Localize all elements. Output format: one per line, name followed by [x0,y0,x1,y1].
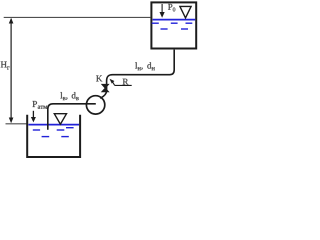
upper water level mark (nabla) [180,6,191,18]
label Patm [32,101,47,109]
label R [123,79,129,85]
pressure Patm arrow [31,111,36,123]
upper tank water dashes [152,23,193,29]
label ln, dn [135,62,155,70]
lower reference line [6,123,28,125]
label Hg [1,62,10,70]
discharge pipe [100,50,174,99]
pump P (circle) [86,96,104,114]
suction pipe [48,104,96,130]
valve K (gate valve symbol) [102,84,109,91]
label P0 [168,4,175,12]
lower water level mark (nabla) [54,114,66,125]
leader arrow R [110,79,132,86]
label K [96,76,102,82]
lower tank T1 outline (open top) [27,115,80,157]
upper tank T2 outline [151,2,196,48]
lower tank water surface [28,124,79,126]
pressure P0 arrow [160,4,165,18]
lower tank water dashes [33,128,74,137]
Hg dimension line [9,18,14,123]
upper tank water surface [153,19,196,21]
label lv, dv [60,92,78,100]
upper reference line [4,16,151,18]
